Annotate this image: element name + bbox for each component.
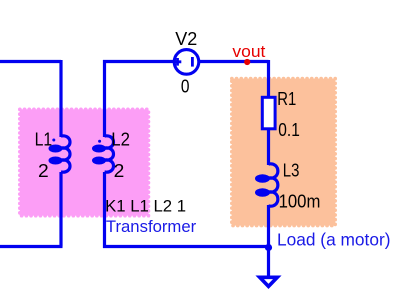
svg-text:vout: vout xyxy=(232,43,265,61)
svg-text:L3: L3 xyxy=(283,159,300,180)
svg-text:Load (a motor): Load (a motor) xyxy=(277,229,391,249)
wire (right vertical above R1) xyxy=(267,60,270,98)
svg-text:Transformer: Transformer xyxy=(106,218,197,236)
junction node (ground net) xyxy=(265,244,272,251)
voltage source V2 xyxy=(174,28,199,97)
ground xyxy=(260,277,278,286)
svg-text:2: 2 xyxy=(114,160,125,181)
inductor L3 xyxy=(255,159,320,211)
highlight box (load, orange) xyxy=(232,79,335,226)
svg-text:2: 2 xyxy=(38,160,49,181)
svg-text:R1: R1 xyxy=(277,89,296,109)
resistor R1 xyxy=(262,89,300,140)
wire (top horizontal L2 to V2) xyxy=(103,60,174,63)
wire (bottom-left horizontal) xyxy=(0,245,63,248)
wire (vertical above L2) xyxy=(103,60,106,137)
wire (top horizontal V2 to vout corner) xyxy=(199,60,269,63)
inductor L2 xyxy=(92,128,130,181)
wire (vertical below L2) xyxy=(103,172,106,248)
wire (left vertical below L1) xyxy=(59,172,62,247)
svg-text:0: 0 xyxy=(181,76,190,97)
svg-text:100m: 100m xyxy=(279,192,321,212)
wire (left vertical above L1) xyxy=(59,60,62,137)
svg-text:K1 L1 L2 1: K1 L1 L2 1 xyxy=(105,197,186,216)
svg-text:V2: V2 xyxy=(175,28,197,49)
svg-text:0.1: 0.1 xyxy=(278,120,300,140)
wire (right vertical between R1 and L3) xyxy=(267,128,270,165)
wire (bottom horizontal L2 to ground node) xyxy=(103,245,269,248)
highlight box (transformer, pink) xyxy=(20,109,149,215)
inductor L1 xyxy=(35,128,70,181)
wire (right vertical below L3 to ground) xyxy=(267,205,270,278)
node vout xyxy=(232,43,265,65)
wire (top-left horizontal) xyxy=(0,60,61,63)
svg-text:L2: L2 xyxy=(111,128,130,149)
svg-text:L1: L1 xyxy=(35,128,53,149)
